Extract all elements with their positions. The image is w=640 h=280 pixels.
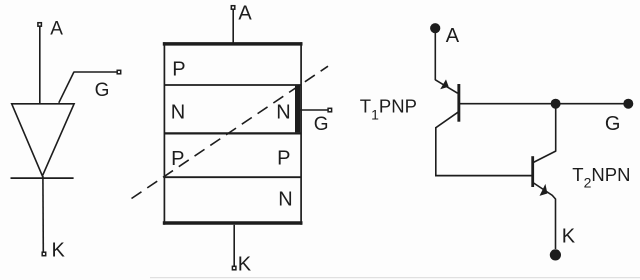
wire cathode stem (left symbol) [42, 176, 44, 252]
svg-text:N: N [276, 101, 290, 123]
node K (model) [550, 249, 561, 260]
junction divider J2 [165, 132, 301, 134]
wire gate (structure) [300, 109, 328, 111]
wire anode (model) [434, 33, 436, 80]
svg-text:P: P [172, 58, 185, 80]
svg-text:G: G [605, 113, 621, 135]
node A (model) [430, 23, 440, 33]
gate contact bar (structure) [295, 86, 300, 133]
svg-text:G: G [95, 80, 110, 101]
node G (model) [623, 99, 633, 109]
svg-text:P: P [277, 147, 290, 169]
terminal A (left symbol) [38, 23, 42, 27]
wire gate horizontal (left symbol) [74, 71, 118, 73]
terminal A (structure) [231, 6, 235, 10]
T1 collector wire diagonal [436, 112, 458, 128]
structure rectangle bottom edge [163, 221, 303, 225]
svg-text:N: N [278, 189, 292, 211]
junction divider J3 [165, 176, 301, 178]
structure rectangle right edge [300, 42, 302, 225]
structure rectangle top edge [163, 42, 303, 46]
junction divider J1 [165, 84, 301, 86]
svg-text:G: G [314, 114, 329, 135]
thyristor triangle [12, 104, 74, 176]
wire gate diagonal (left symbol) [59, 72, 74, 103]
T2 emitter wire [534, 183, 556, 249]
terminal G (left symbol) [117, 70, 121, 74]
svg-text:N: N [171, 101, 185, 123]
svg-text:A: A [50, 18, 63, 39]
T1 collector wire vertical [435, 127, 437, 176]
wire T1 base to gate [460, 103, 628, 105]
dashed partition line [132, 66, 329, 198]
svg-text:K: K [562, 225, 576, 247]
wire cathode stem (structure) [233, 225, 235, 266]
wire anode stem (left symbol) [39, 26, 41, 103]
svg-text:A: A [446, 25, 460, 47]
terminal K (left symbol) [42, 252, 46, 256]
T2 emitter arrow [540, 184, 548, 196]
svg-text:A: A [238, 3, 252, 25]
T1 emitter arrow [440, 79, 449, 89]
faint bottom scan line [150, 277, 640, 279]
terminal G (structure) [328, 108, 332, 112]
wire node to T2 collector [555, 104, 557, 152]
T1 emitter wire [435, 80, 457, 93]
cathode bar (left symbol) [11, 177, 74, 179]
wire T1 collector to T2 base [435, 175, 532, 177]
node junction (model) [551, 99, 561, 109]
svg-text:P: P [171, 148, 184, 170]
transistor T1 base bar [457, 84, 460, 122]
svg-text:K: K [52, 239, 66, 261]
terminal K (structure) [232, 266, 236, 270]
T2 collector wire [533, 151, 556, 163]
svg-text:K: K [238, 253, 252, 275]
wire anode stem (structure) [232, 9, 234, 43]
structure rectangle left edge [163, 42, 165, 225]
transistor T2 base bar [531, 156, 534, 187]
